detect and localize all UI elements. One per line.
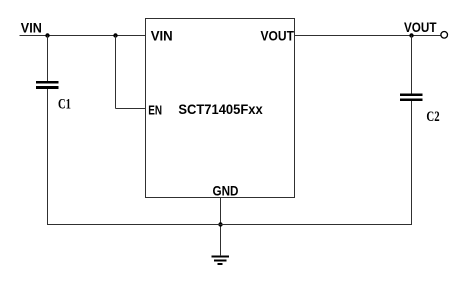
wire C2 lower segment <box>411 101 413 225</box>
svg-text:VOUT: VOUT <box>404 19 437 35</box>
capacitor C1 <box>36 81 58 89</box>
svg-text:VIN: VIN <box>21 19 42 35</box>
wire C1 upper segment <box>47 36 49 82</box>
wire ground rail <box>47 224 412 226</box>
wire EN vertical <box>115 36 117 109</box>
node GND rail junction <box>218 222 222 226</box>
wire EN horizontal <box>116 108 146 110</box>
wire VOUT horizontal <box>295 35 441 37</box>
svg-text:GND: GND <box>213 182 239 198</box>
svg-text:SCT71405Fxx: SCT71405Fxx <box>178 102 263 117</box>
capacitor C2 <box>400 94 423 101</box>
wire C2 upper segment <box>411 36 413 94</box>
wire VIN input horizontal <box>20 35 146 37</box>
ground symbol <box>212 255 230 265</box>
VOUT terminal circle <box>441 32 448 39</box>
svg-text:VIN: VIN <box>151 27 173 43</box>
svg-text:VOUT: VOUT <box>261 27 295 43</box>
svg-text:C1: C1 <box>58 97 71 113</box>
node VIN/EN junction <box>113 33 117 37</box>
svg-text:C2: C2 <box>426 109 439 125</box>
node VOUT/C2 junction <box>409 33 413 37</box>
wire GND vertical from IC <box>220 198 222 256</box>
wire C1 lower segment <box>47 89 49 225</box>
svg-text:EN: EN <box>148 103 162 118</box>
node VIN/C1 junction <box>45 33 49 37</box>
IC U1 body <box>146 19 295 198</box>
